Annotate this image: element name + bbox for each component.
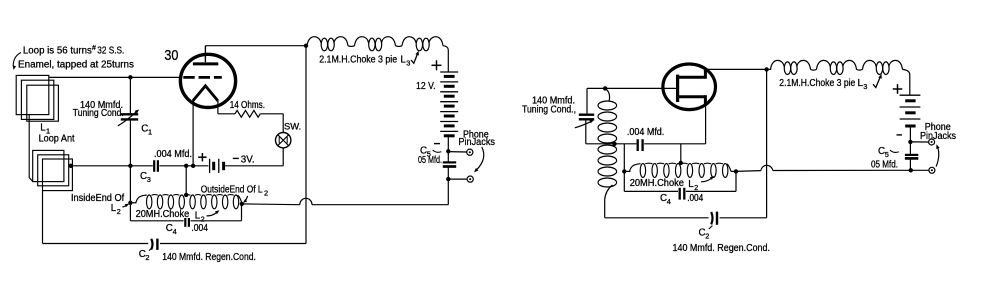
- wire cap to tube corner: [644, 143, 705, 145]
- inductor L2 20MH choke right: [630, 163, 732, 171]
- wire loop bottom down: [42, 191, 44, 244]
- wire loop to C3: [71, 165, 153, 167]
- node coil top junction: [603, 86, 607, 90]
- svg-text:20MH.Choke: 20MH.Choke: [136, 209, 190, 220]
- svg-text:#: #: [92, 45, 96, 52]
- svg-text:5: 5: [885, 150, 889, 159]
- node C1 bottom junction: [128, 164, 132, 168]
- svg-text:20MH.Choke: 20MH.Choke: [630, 178, 685, 189]
- svg-text:OutsideEnd Of L: OutsideEnd Of L: [201, 185, 263, 196]
- minus sign 3V: [233, 157, 239, 159]
- svg-text:InsideEnd Of: InsideEnd Of: [71, 193, 124, 204]
- wire switch to battery line: [282, 148, 284, 166]
- wire filament line to L2 tap: [185, 166, 187, 195]
- loop antenna L1 upper squares: [16, 75, 49, 114]
- svg-text:3: 3: [147, 175, 151, 184]
- wire plate to L3 right: [705, 68, 766, 70]
- wire to jack2 right: [911, 169, 929, 171]
- inductor L3 2.1MH choke right: [771, 60, 903, 70]
- tube grid dashed: [183, 76, 222, 79]
- svg-text:14 Ohms.: 14 Ohms.: [230, 100, 265, 111]
- svg-text:05 Mfd.: 05 Mfd.: [418, 155, 442, 166]
- wire battery A to switch: [225, 165, 283, 167]
- battery A 3V: [209, 159, 211, 173]
- node plate junction right: [764, 67, 768, 71]
- svg-text:2.1M.H.Choke 3 pie: 2.1M.H.Choke 3 pie: [319, 54, 397, 65]
- svg-text:2: 2: [117, 207, 121, 216]
- wire between loop sections: [29, 115, 33, 182]
- plus sign 3V: [198, 156, 206, 158]
- node L2 tap: [184, 193, 188, 197]
- node L2 right end right ckt: [734, 169, 738, 173]
- capacitor C2 right regen condenser: [605, 217, 709, 219]
- svg-text:PinJacks: PinJacks: [458, 137, 495, 148]
- wire tube bottom down: [705, 104, 707, 144]
- wire: [624, 170, 630, 172]
- wire vertical plate bus: [305, 46, 307, 244]
- capacitor .004 Mfd right: [637, 139, 639, 151]
- svg-text:PinJacks: PinJacks: [920, 131, 956, 142]
- svg-text:2: 2: [145, 253, 149, 262]
- wire bottom regen line: [43, 243, 149, 245]
- node jack2 junction: [446, 177, 450, 181]
- wire down to L2 middle right: [680, 144, 682, 163]
- node plate/L3/C2 junction: [304, 44, 308, 48]
- node filament junction: [191, 164, 195, 168]
- minus sign 12V: [434, 143, 440, 145]
- svg-text:3V.: 3V.: [241, 155, 255, 166]
- phone pin jack J1: [467, 149, 473, 155]
- svg-text:1: 1: [148, 128, 152, 137]
- svg-text:140 Mmfd. Regen.Cond.: 140 Mmfd. Regen.Cond.: [162, 252, 256, 263]
- capacitor C3 .004 mfd: [153, 160, 155, 172]
- wire hop over vertical: [300, 198, 312, 204]
- svg-text:4: 4: [173, 227, 177, 236]
- svg-text:.004: .004: [687, 193, 703, 204]
- arrow to L3: [411, 54, 418, 64]
- svg-text:2: 2: [264, 189, 268, 198]
- battery B1 12V: [440, 71, 458, 73]
- phone pin jack J2 right: [929, 167, 935, 173]
- svg-text:SW.: SW.: [284, 121, 301, 132]
- wire to jack1: [448, 151, 466, 153]
- svg-text:05 Mfd.: 05 Mfd.: [871, 160, 898, 171]
- tube V2 cathode bar: [676, 75, 679, 102]
- node grid/C1 junction: [128, 75, 132, 79]
- wire return to L2: [312, 204, 448, 206]
- wire to jack1 right: [910, 141, 928, 143]
- wire tap to L2 left right ckt: [623, 144, 625, 192]
- wire tap line: [586, 143, 637, 145]
- wire loop to grid: [49, 76, 181, 78]
- tuning condenser right 140 mmfd: [579, 113, 594, 115]
- tube V2 envelope right: [663, 64, 716, 110]
- phone pin jack J1 right: [929, 139, 935, 145]
- node jack2 junction right: [909, 168, 913, 172]
- svg-text:.004 Mfd.: .004 Mfd.: [627, 127, 664, 138]
- arrow to jacks right: [936, 147, 939, 167]
- tube plate: [193, 62, 218, 65]
- wire grid lead right tube: [587, 87, 676, 89]
- tube V1 type 30 envelope: [180, 54, 235, 107]
- plus sign right battery: [893, 88, 903, 90]
- minus sign right battery: [897, 134, 903, 136]
- capacitor C4 left .004: [130, 220, 183, 222]
- arrow to jacks: [477, 147, 484, 170]
- node L2 left end: [128, 201, 132, 205]
- wire battery to C5 right: [909, 128, 911, 155]
- wire C1 junction down to L2/C4: [129, 166, 131, 221]
- svg-text:2: 2: [694, 183, 698, 192]
- wire resistor to switch: [260, 113, 283, 115]
- svg-text:2.1M.H.Choke 3 pie: 2.1M.H.Choke 3 pie: [779, 78, 855, 89]
- tube V2 top bar: [676, 76, 705, 79]
- arrow to L2 left: [207, 212, 217, 215]
- tube filament: [193, 86, 218, 101]
- svg-text:Enamel, tapped at 25turns: Enamel, tapped at 25turns: [18, 60, 134, 71]
- node choke tap junction: [184, 164, 188, 168]
- svg-text:Tuning Cond.,: Tuning Cond.,: [522, 105, 576, 116]
- coil L1 right vertical winding: [605, 89, 609, 101]
- inductor L3 2.1MH choke left: [307, 37, 443, 47]
- wire to jack2: [448, 178, 467, 180]
- wire L3 to battery: [443, 46, 448, 72]
- wire to L2 right end: [242, 203, 300, 206]
- wire coil bottom tail: [605, 185, 613, 218]
- loop antenna lower squares: [33, 150, 64, 181]
- wire: [130, 202, 136, 204]
- capacitor C1 tuning condenser: [129, 77, 131, 113]
- arrow to L3 right: [873, 77, 880, 88]
- wire tuning cond to tap: [585, 121, 587, 144]
- wire L2 to jacks right: [736, 170, 761, 173]
- svg-text:2: 2: [705, 232, 709, 241]
- battery B right: [900, 94, 921, 96]
- wire vertical plate bus right: [766, 69, 768, 217]
- node loop inside end: [69, 164, 73, 168]
- phone pin jack J2: [467, 176, 473, 182]
- wire C3 to battery A: [159, 165, 208, 167]
- wire hop right ckt: [761, 165, 773, 170]
- wire C5 down: [447, 167, 449, 205]
- wire battery to C5: [447, 137, 449, 162]
- resistor R1 14 ohms: [235, 110, 260, 117]
- svg-text:12 V.: 12 V.: [416, 81, 436, 92]
- svg-text:4: 4: [667, 197, 671, 206]
- capacitor C4 right .004: [624, 190, 678, 192]
- capacitor C5 left .05 mfd: [443, 161, 456, 163]
- svg-text:Loop Ant: Loop Ant: [39, 134, 75, 145]
- node L2 left end right ckt: [622, 169, 626, 173]
- arrow inside end: [123, 205, 128, 207]
- wire filament left leg: [192, 100, 194, 166]
- node L2 right end: [240, 202, 244, 206]
- svg-text:Tuning Cond.: Tuning Cond.: [73, 108, 124, 119]
- wire filament right leg: [217, 100, 219, 114]
- note arrow: [13, 53, 21, 67]
- wire plate to choke L3: [205, 45, 306, 47]
- svg-text:3: 3: [406, 58, 410, 67]
- node jack1 junction right: [908, 140, 912, 144]
- node coil tap: [612, 142, 616, 146]
- node jack1 junction: [446, 149, 450, 153]
- svg-text:.004 Mfd.: .004 Mfd.: [154, 149, 192, 160]
- arrow outside end: [245, 196, 248, 201]
- tube V2 bottom bar: [676, 95, 705, 98]
- svg-text:.004: .004: [191, 223, 208, 234]
- svg-text:30: 30: [164, 47, 178, 64]
- svg-text:3: 3: [863, 82, 867, 91]
- plus sign 12V: [432, 64, 442, 66]
- switch SW: [276, 133, 291, 148]
- capacitor C2 left regen condenser: [151, 239, 152, 250]
- wire: [767, 68, 772, 70]
- node L2 middle tap right: [679, 161, 683, 165]
- arrow to L2 right: [701, 178, 712, 182]
- svg-text:Loop is 56 turns: Loop is 56 turns: [23, 45, 92, 56]
- plate lead: [204, 46, 206, 63]
- wire L3 to battery right: [903, 69, 910, 94]
- wire to tuning cond right: [586, 88, 588, 113]
- capacitor C5 right .05 mfd: [905, 154, 918, 156]
- svg-text:140 Mmfd. Regen.Cond.: 140 Mmfd. Regen.Cond.: [673, 243, 771, 254]
- inductor L2 20MH choke left: [136, 195, 242, 203]
- svg-text:32 S.S.: 32 S.S.: [97, 45, 124, 56]
